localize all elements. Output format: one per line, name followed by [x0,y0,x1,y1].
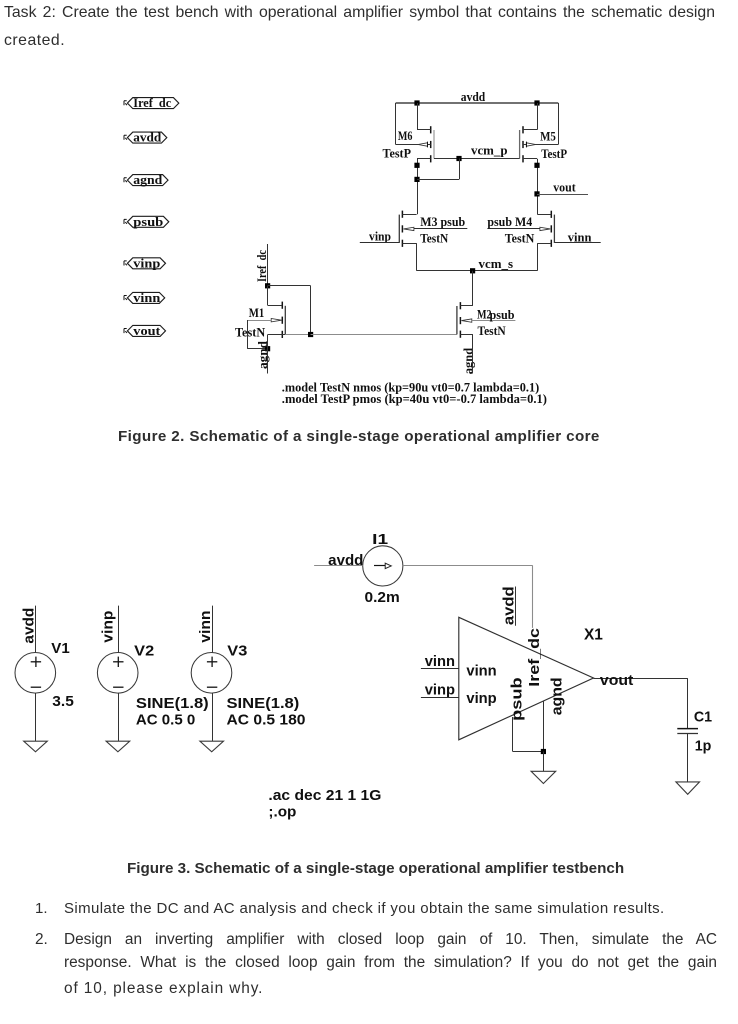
svg-text:3.5: 3.5 [52,693,74,710]
wire M1 diode connection [268,285,311,287]
svg-text:C1: C1 [694,708,712,725]
op-amp X1 [459,586,603,740]
svg-text:SINE(1.8): SINE(1.8) [136,695,209,712]
junction vcm_s [470,268,475,273]
svg-text:agnd: agnd [256,341,270,369]
svg-text:0.2m: 0.2m [365,589,400,606]
voltage source V1 [15,606,74,742]
svg-text:psub: psub [509,677,526,721]
transistor M1 [235,302,311,340]
wire avdd rail [396,102,559,104]
I/O pin Iref_dc [127,98,178,109]
wire vcm_s to M2 drain [472,271,474,306]
wire I1 to X1 Iref_dc [403,565,533,567]
I/O pin vinp [127,258,165,269]
svg-text:agnd: agnd [548,677,565,715]
junction M1 gate [308,332,313,337]
I/O pin psub [127,216,168,227]
wire avdd to M5 bulk [558,103,560,145]
list item 2 line 2 [64,954,717,976]
wire M5 drain down to M4 [537,159,539,215]
transistor M2 [457,302,516,338]
svg-text:vinn: vinn [197,611,214,643]
svg-text:vinn: vinn [133,291,160,305]
I/O pin vout [127,325,165,336]
wire vinp pin [421,697,459,699]
svg-text:agnd: agnd [133,173,162,187]
ground V2 [106,741,130,752]
svg-text:TestN: TestN [478,324,506,338]
wire M3 source down [416,243,418,270]
svg-text:vinn: vinn [466,662,496,679]
wire vcm_p gate rail [434,158,520,160]
wire M4 source down [537,243,539,270]
svg-text:TestN: TestN [420,232,448,246]
svg-text:vinp: vinp [466,690,496,707]
svg-text:Iref_dc: Iref_dc [255,250,269,282]
wire vinn [554,242,600,244]
figure 2 caption [118,428,600,445]
list item 1 number [35,900,48,917]
svg-text:AC 0.5 0: AC 0.5 0 [136,711,195,728]
I/O pin avdd [127,132,166,143]
junction avdd-M5 [534,100,539,105]
svg-text:V3: V3 [227,642,247,659]
svg-text:M1: M1 [249,306,265,320]
voltage source V2 [97,606,208,742]
svg-text:V1: V1 [51,640,69,657]
svg-text:avdd: avdd [461,90,485,104]
svg-text:agnd: agnd [462,348,476,375]
transistor M4 [487,211,554,247]
figure 3 caption [127,860,624,877]
wire M6 drain down to M3 [417,159,419,214]
svg-text:vinp: vinp [369,230,391,244]
svg-text:Iref_dc: Iref_dc [526,628,543,687]
svg-text:TestN: TestN [235,326,265,340]
wire psub to agnd [513,751,544,753]
wire avdd to M6 source [417,103,419,130]
svg-text:psub M4: psub M4 [487,215,532,229]
wire avdd to M6 bulk [395,103,397,145]
svg-text:.model TestP pmos (kp=40u vt0=: .model TestP pmos (kp=40u vt0=-0.7 lambd… [282,392,547,406]
svg-text:psub: psub [133,215,163,229]
junction M5 drain a [534,163,539,168]
pin stub agnd X1 [543,701,545,752]
list item 2 number [35,931,48,949]
I/O pin agnd [127,175,168,186]
svg-text:1p: 1p [695,737,712,754]
pin stub psub X1 [512,717,514,752]
junction M6 drain b [414,177,419,182]
wire M1 source agnd [267,335,269,374]
ground V1 [24,741,48,752]
wire Iref_dc junction to M1 drain [267,286,269,305]
svg-text:vinp: vinp [133,256,160,270]
svg-text:M3 psub: M3 psub [420,215,465,229]
transistor M6 [383,126,435,162]
junction M6 drain a [414,163,419,168]
wire M2 source agnd [472,334,474,373]
svg-text:AC 0.5 180: AC 0.5 180 [227,711,306,728]
junction vcm_p [456,156,461,161]
junction Iref_dc [265,283,270,288]
wire vcm_p to M6 drain (diode connection) [459,159,461,180]
svg-text:avdd: avdd [328,552,363,569]
current source I1 [328,531,403,606]
list item 2 line 3 [64,980,263,998]
svg-text:vinp: vinp [100,611,117,643]
svg-text:Iref_dc: Iref_dc [133,96,171,110]
svg-text:vout: vout [600,672,633,689]
wire M1 gate to M2 gate [311,334,457,336]
ground X1 [531,771,556,783]
svg-text:vcm_p: vcm_p [471,144,508,158]
voltage source V3 [191,606,305,742]
junction M1 source-bulk [265,346,270,351]
junction avdd-M6 [414,100,419,105]
list item 1 text [64,900,665,917]
svg-text:avdd: avdd [133,131,161,145]
svg-text:TestN: TestN [505,232,535,246]
svg-text:M5: M5 [540,130,556,144]
svg-text:TestP: TestP [541,147,567,161]
svg-text:avdd: avdd [21,608,38,644]
capacitor C1 [677,678,712,782]
svg-text:vout: vout [133,324,160,338]
task heading line 1 [4,4,715,26]
junction psub-agnd [541,749,546,754]
transistor M3 [399,211,467,247]
wire vinn pin [421,668,459,670]
ground C1 [676,782,700,794]
junction vout tap [534,191,539,196]
svg-text:vinn: vinn [425,653,455,670]
wire to ground X1 [543,752,545,772]
wire Iref_dc [267,244,269,286]
ground V3 [200,741,224,752]
svg-text:TestP: TestP [383,147,412,161]
svg-text:psub: psub [490,308,515,322]
svg-text:M6: M6 [398,129,413,143]
svg-text:I1: I1 [372,531,388,548]
svg-text:.ac dec 21 1 1G: .ac dec 21 1 1G [268,787,381,804]
svg-text:;.op: ;.op [268,803,296,820]
list item 2 line 1 [64,931,717,953]
svg-text:vcm_s: vcm_s [479,257,514,271]
svg-text:vinp: vinp [425,681,455,698]
wire vout X1 to C1 [594,678,688,680]
wire vinp [360,242,400,244]
pin stub avdd X1 [515,587,517,626]
wire avdd to I1 [314,565,363,567]
transistor M5 [520,126,568,162]
task heading line 2 [4,32,65,50]
I/O pin vinn [127,292,164,303]
wire vout [537,194,588,196]
svg-text:SINE(1.8): SINE(1.8) [227,695,300,712]
svg-text:X1: X1 [584,626,603,643]
svg-text:V2: V2 [134,642,154,659]
wire avdd to M5 source [537,103,539,130]
wire vcm_s [417,270,538,272]
wire M1 bulk loop [247,320,249,349]
svg-text:vout: vout [553,181,576,195]
